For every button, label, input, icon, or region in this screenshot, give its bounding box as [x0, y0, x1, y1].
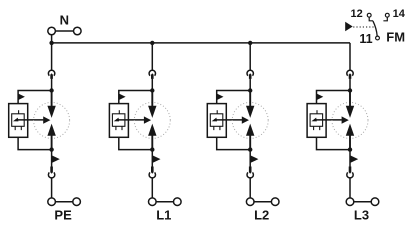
- wire: upper node to arrester module (L2 path): [217, 91, 251, 104]
- wire: plug contact to terminal L1: [151, 178, 153, 198]
- trigger arrowhead (PE path): [43, 116, 50, 123]
- plug-in disconnect socket, bottom (L1 path): [149, 172, 155, 177]
- plug direction arrow, upper (L2 path): [217, 94, 224, 101]
- disconnector arrow (L2 path): [212, 118, 217, 122]
- plug-in disconnect pin, bottom (L3 path): [349, 167, 352, 174]
- plug-in disconnect pin, top (PE path): [50, 73, 53, 79]
- terminal circle L2 (left): [246, 198, 254, 206]
- svg-text:PE: PE: [54, 207, 72, 222]
- plug direction arrow, lower (PE path): [52, 155, 60, 163]
- wire: bus down to plug contact (L1 path): [151, 43, 153, 70]
- arrester module box (PE path): [9, 104, 28, 138]
- svg-text:N: N: [60, 12, 69, 27]
- disconnector bottom stubs (L1 path): [116, 127, 122, 131]
- spark gap top electrode (L2 path): [246, 106, 254, 118]
- spark gap bottom electrode (L1 path): [148, 124, 156, 136]
- wire: spark gap to lower node (PE path): [51, 135, 53, 149]
- trigger arrowhead (L1 path): [144, 116, 151, 123]
- spark gap bottom electrode (L3 path): [346, 124, 354, 136]
- trigger line to spark gap (L2 path): [214, 119, 242, 121]
- svg-text:14: 14: [393, 8, 406, 20]
- plug-in disconnect pin, top (L1 path): [151, 73, 154, 79]
- junction: bus / PE branch: [49, 41, 53, 45]
- wire: plug contact to upper node (L3 path): [349, 79, 351, 91]
- spark gap top electrode (L3 path): [346, 106, 354, 118]
- wire: bus down to plug contact (PE path): [51, 43, 53, 70]
- trigger line to spark gap (PE path): [16, 119, 44, 121]
- disconnector top stub (L1 path): [118, 110, 120, 114]
- contact wire 14: [383, 17, 387, 21]
- plug-in disconnect socket, bottom (L2 path): [247, 172, 253, 177]
- terminal circle L2 (right): [271, 198, 279, 206]
- svg-text:L1: L1: [156, 207, 171, 222]
- wire: plug contact to terminal L3: [349, 178, 351, 198]
- spark gap enclosure, dashed (PE path): [34, 102, 70, 138]
- wire: lower node to plug contact (L3 path): [349, 150, 351, 167]
- wire: plug contact to terminal L2: [249, 178, 251, 198]
- wire: terminal link PE: [52, 201, 77, 203]
- svg-text:FM: FM: [386, 30, 405, 45]
- contact circle 11: [376, 36, 380, 40]
- wire: upper node to arrester module (L1 path): [119, 91, 153, 104]
- disconnector symbol box (L1 path): [112, 114, 125, 127]
- junction: bus / L2 branch: [248, 41, 252, 45]
- wire: upper node into spark gap (PE path): [51, 91, 53, 107]
- plug direction arrow, upper (L3 path): [317, 94, 324, 101]
- svg-text:L3: L3: [354, 207, 369, 222]
- wire: arrester module to lower node (L3 path): [317, 137, 351, 149]
- spark gap top electrode (L1 path): [148, 106, 156, 118]
- terminal circle L1 (left): [149, 198, 157, 206]
- terminal circle N (right): [74, 27, 82, 35]
- terminal circle L3 (left): [346, 198, 354, 206]
- plug-in disconnect pin, bottom (L1 path): [151, 167, 154, 174]
- spark gap top electrode (PE path): [47, 106, 55, 118]
- wire: spark gap to lower node (L2 path): [249, 135, 251, 149]
- wire: spark gap to lower node (L1 path): [151, 135, 153, 149]
- disconnector bottom stubs (L2 path): [214, 127, 220, 131]
- wire: lower node to plug contact (L2 path): [249, 150, 251, 167]
- plug-in disconnect socket, top (L2 path): [247, 70, 253, 75]
- plug-in disconnect socket, bottom (PE path): [48, 172, 54, 177]
- disconnector top stub (L3 path): [316, 110, 318, 114]
- wire: upper node to arrester module (L3 path): [317, 91, 351, 104]
- plug-in disconnect socket, top (PE path): [48, 70, 54, 75]
- wire: plug contact to upper node (L2 path): [249, 79, 251, 91]
- terminal circle L3 (right): [371, 198, 379, 206]
- junction: upper node (L3 path): [348, 88, 352, 92]
- disconnector symbol box (PE path): [12, 114, 25, 127]
- disconnector bottom stubs (PE path): [15, 127, 21, 131]
- wire: arrester module to lower node (L1 path): [119, 137, 153, 149]
- wire: upper node into spark gap (L3 path): [349, 91, 351, 107]
- spark gap bottom electrode (L2 path): [246, 124, 254, 136]
- plug-in disconnect pin, top (L3 path): [349, 73, 352, 79]
- wire: bus down to plug contact (L2 path): [249, 43, 251, 70]
- plug direction arrow, upper (PE path): [18, 94, 25, 101]
- plug direction arrow, lower (L2 path): [250, 155, 258, 163]
- arrester module box (L3 path): [307, 104, 326, 138]
- trigger line to spark gap (L1 path): [116, 119, 144, 121]
- wire: lower node to plug contact (L1 path): [151, 150, 153, 167]
- disconnector arrow (PE path): [13, 118, 18, 122]
- trigger arrowhead (L3 path): [342, 116, 349, 123]
- plug-in disconnect pin, bottom (PE path): [50, 167, 53, 174]
- disconnector top stub (PE path): [18, 110, 20, 114]
- svg-text:12: 12: [350, 8, 362, 20]
- spark gap bottom electrode (PE path): [47, 124, 55, 136]
- trigger line to spark gap (L3 path): [314, 119, 342, 121]
- wire: plug contact to upper node (L1 path): [151, 79, 153, 91]
- plug direction arrow, lower (L1 path): [152, 155, 160, 163]
- wire: spark gap to lower node (L3 path): [349, 135, 351, 149]
- terminal circle N (left): [48, 27, 56, 35]
- svg-text:11: 11: [359, 32, 372, 46]
- disconnector arrow (L1 path): [114, 118, 119, 122]
- wire: bus N: [52, 42, 350, 44]
- wire: terminal link L2: [250, 201, 275, 203]
- contact wire 12: [369, 17, 373, 21]
- plug direction arrow, lower (L3 path): [350, 155, 358, 163]
- actuator arrow FM: [345, 22, 353, 32]
- disconnector top stub (L2 path): [216, 110, 218, 114]
- spark gap enclosure, dashed (L3 path): [332, 102, 368, 138]
- plug-in disconnect socket, bottom (L3 path): [347, 172, 353, 177]
- switch armature 11-12: [373, 21, 377, 36]
- disconnector arrow (L3 path): [311, 118, 316, 122]
- wire: terminal N to bus: [51, 35, 53, 43]
- plug-in disconnect pin, bottom (L2 path): [249, 167, 252, 174]
- wire: upper node into spark gap (L2 path): [249, 91, 251, 107]
- terminal circle PE (left): [48, 198, 56, 206]
- arrester module box (L1 path): [109, 104, 128, 138]
- wire: upper node to arrester module (PE path): [18, 91, 52, 104]
- disconnector symbol box (L2 path): [210, 114, 223, 127]
- wire: lower node to plug contact (PE path): [51, 150, 53, 167]
- junction: bus / L1 branch: [150, 41, 154, 45]
- disconnector bottom stubs (L3 path): [314, 127, 320, 131]
- wire: plug contact to terminal PE: [51, 178, 53, 198]
- plug-in disconnect socket, top (L3 path): [347, 70, 353, 75]
- wire: upper node into spark gap (L1 path): [151, 91, 153, 107]
- wire: terminal link L3: [350, 201, 375, 203]
- trigger arrowhead (L2 path): [242, 116, 249, 123]
- wire: plug contact to upper node (PE path): [51, 79, 53, 91]
- disconnector symbol box (L3 path): [310, 114, 323, 127]
- plug direction arrow, upper (L1 path): [119, 94, 126, 101]
- contact circle 14: [385, 13, 389, 17]
- terminal circle PE (right): [73, 198, 81, 206]
- arrester module box (L2 path): [207, 104, 226, 138]
- junction: upper node (PE path): [49, 88, 53, 92]
- junction: lower node (L1 path): [150, 147, 154, 151]
- wire: arrester module to lower node (PE path): [18, 137, 52, 149]
- wire: arrester module to lower node (L2 path): [217, 137, 251, 149]
- actuator dashed link FM: [353, 26, 374, 28]
- junction: lower node (L3 path): [348, 147, 352, 151]
- junction: upper node (L2 path): [248, 88, 252, 92]
- wire: terminal link N: [52, 30, 78, 32]
- plug-in disconnect socket, top (L1 path): [149, 70, 155, 75]
- terminal circle L1 (right): [174, 198, 182, 206]
- spark gap enclosure, dashed (L1 path): [134, 102, 170, 138]
- spark gap enclosure, dashed (L2 path): [232, 102, 268, 138]
- junction: upper node (L1 path): [150, 88, 154, 92]
- svg-text:L2: L2: [254, 207, 269, 222]
- contact circle 12: [367, 13, 371, 17]
- junction: lower node (L2 path): [248, 147, 252, 151]
- wire: terminal link L1: [152, 201, 177, 203]
- junction: lower node (PE path): [49, 147, 53, 151]
- plug-in disconnect pin, top (L2 path): [249, 73, 252, 79]
- wire: bus down to plug contact (L3 path): [349, 43, 351, 70]
